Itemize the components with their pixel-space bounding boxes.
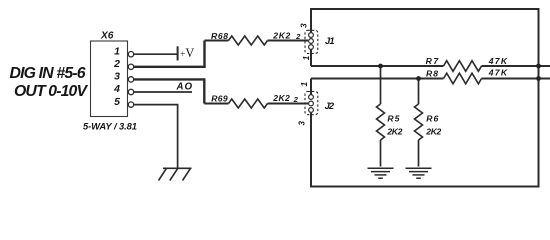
svg-text:47K: 47K (488, 56, 508, 66)
svg-text:R69: R69 (211, 93, 228, 103)
svg-text:2K2: 2K2 (272, 93, 290, 103)
svg-text:+V: +V (180, 46, 194, 60)
svg-text:R6: R6 (426, 114, 438, 124)
svg-text:DIG IN #5-6: DIG IN #5-6 (10, 65, 86, 82)
svg-text:J2: J2 (325, 101, 335, 111)
svg-text:47K: 47K (488, 68, 508, 78)
svg-text:1: 1 (114, 45, 120, 57)
svg-text:OUT 0-10V: OUT 0-10V (14, 83, 88, 100)
svg-text:3: 3 (300, 23, 309, 28)
svg-text:5: 5 (114, 96, 120, 108)
svg-text:2: 2 (295, 32, 301, 41)
svg-text:2K2: 2K2 (425, 126, 441, 136)
svg-text:X6: X6 (100, 31, 114, 42)
svg-text:3: 3 (297, 121, 306, 126)
svg-text:2K2: 2K2 (272, 30, 290, 40)
svg-text:1: 1 (302, 55, 311, 60)
svg-text:R68: R68 (211, 31, 228, 41)
svg-text:R5: R5 (387, 114, 399, 124)
svg-text:AO: AO (176, 82, 193, 93)
svg-text:2K2: 2K2 (386, 126, 402, 136)
svg-text:2: 2 (113, 58, 120, 70)
svg-text:R8: R8 (426, 69, 438, 79)
svg-text:4: 4 (113, 83, 120, 95)
svg-text:5-WAY / 3.81: 5-WAY / 3.81 (83, 120, 137, 131)
svg-text:3: 3 (114, 71, 120, 83)
svg-text:2: 2 (293, 95, 299, 104)
svg-text:1: 1 (300, 81, 309, 86)
svg-text:J1: J1 (325, 36, 335, 46)
svg-text:R7: R7 (426, 56, 440, 66)
